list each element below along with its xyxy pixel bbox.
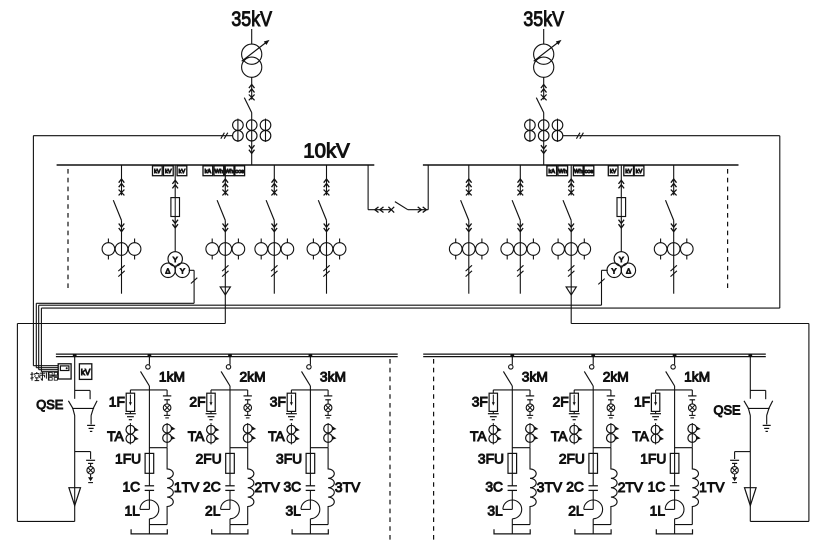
frame electrode branch 2kM	[575, 529, 611, 534]
tick marks below lamp 2kM	[245, 412, 251, 418]
wire branch 2kM parallel junction top	[593, 447, 611, 449]
feeder W1 wire through CTs	[121, 220, 123, 293]
svg-text:1TV: 1TV	[699, 480, 725, 495]
current transformer group TA1 (3 phases x 2 cores)	[233, 119, 271, 142]
feeder W6 wire through CTs	[468, 220, 470, 293]
tick marks below lamp 2kM	[608, 412, 614, 418]
svg-text:3TV: 3TV	[335, 480, 361, 495]
svg-text:3F: 3F	[472, 394, 488, 409]
switch 2kM (circle + blade)	[221, 355, 231, 386]
fuse 2FU	[226, 453, 235, 485]
wire branch 1kM bottom junction	[675, 525, 693, 534]
capacitor 1C	[145, 486, 154, 510]
wire branch 3kM parallel junction top	[310, 447, 328, 449]
indicator lamp branch 3kM	[526, 404, 534, 412]
wire breaker 2 to CT group	[543, 113, 545, 165]
ground arrester 2F	[569, 411, 580, 419]
text label 2C	[566, 480, 584, 495]
wire filter bus section I (double line)	[56, 354, 398, 357]
current transformer TA branch 1kM left	[126, 423, 139, 445]
svg-text:1C: 1C	[122, 480, 140, 495]
reactor 2L	[584, 500, 603, 525]
svg-text:Δ: Δ	[626, 266, 631, 275]
feeder W8 breaker blade	[563, 200, 571, 220]
feeder W1: wire from bus	[121, 165, 123, 195]
wire cable route feeder W3 to filter section I	[17, 324, 225, 522]
wire 10kV bus section II	[423, 164, 739, 166]
current transformer group TA2 (3 phases x 2 cores)	[525, 119, 563, 142]
svg-text:3kM: 3kM	[320, 370, 346, 385]
indicator lamp branch 1kM	[689, 404, 697, 412]
text label 2FU	[196, 452, 222, 467]
text label 1TV	[174, 480, 200, 495]
feeder W1 breaker blade	[113, 200, 121, 220]
junction node branch 2kM on filter bus	[591, 354, 595, 358]
text 35kV label source 2	[523, 7, 564, 31]
wire CT1 cable down left edge to controller	[33, 136, 58, 366]
junction node branch 2kM on filter bus	[228, 354, 232, 358]
QSE section II wire down	[749, 416, 751, 488]
text label 3L	[285, 504, 301, 519]
feeder W5 withdrawable contact (chevrons + star)	[324, 179, 330, 195]
meter boxes kA Wh Wh cos bus I	[203, 166, 245, 176]
current transformer TA branch 1kM right	[688, 423, 701, 448]
text label 3F	[270, 394, 286, 409]
capacitor 3C	[508, 486, 517, 510]
current transformer TA branch 3kM left	[287, 423, 300, 445]
discharge capacitor branch 2kM	[244, 390, 252, 404]
switch 3kM (circle + blade)	[302, 355, 312, 386]
text label 3F	[472, 394, 488, 409]
feeder W10: wire from bus	[673, 165, 675, 195]
feeder W3 lower contact (chevrons)	[223, 224, 229, 232]
QSE section I switch contacts (funnel)	[68, 401, 97, 416]
text 10kV label	[303, 141, 350, 163]
feeder W7 wire through CTs	[519, 220, 521, 293]
svg-text:2F: 2F	[553, 394, 569, 409]
surge arrester 3F	[287, 390, 295, 412]
svg-text:kV: kV	[179, 169, 186, 175]
feeder W8: wire from bus	[570, 165, 572, 195]
feeder W4 current transformers TA (3 phases)	[255, 239, 294, 260]
svg-text:Wh: Wh	[559, 169, 567, 175]
wire PT TV-I secondary cable to controller	[36, 270, 197, 367]
svg-text:2C: 2C	[566, 480, 584, 495]
feeder W8 cable termination (open triangle)	[566, 287, 576, 295]
text label 1F	[109, 394, 125, 409]
feeder W8 lower contact (chevrons)	[568, 224, 574, 232]
text label 2TV	[618, 480, 644, 495]
wire branch 1kM parallel junction top	[149, 447, 167, 449]
discharge capacitor branch 1kM	[688, 390, 696, 404]
feeder W7 lower contact (chevrons)	[518, 224, 524, 232]
svg-text:Wh: Wh	[574, 169, 582, 175]
text label TA left 2kM	[551, 429, 568, 444]
withdrawable contact symbol (double chevron) breaker 2 lower	[541, 145, 547, 153]
current transformer TA branch 2kM left	[570, 423, 583, 445]
switch 2kM (circle + blade)	[584, 355, 594, 386]
capacitor 2C	[589, 486, 598, 510]
voltage transformer coil 2TV	[248, 448, 254, 525]
feeder W4 breaker blade	[266, 200, 274, 220]
text label 3TV	[537, 480, 563, 495]
svg-text:kV: kV	[625, 169, 632, 175]
voltage transformer coil 2TV	[611, 448, 617, 525]
feeder W3 withdrawable contact (chevrons + star)	[222, 179, 228, 195]
text label TA left 1kM	[107, 429, 124, 444]
reactor 1L	[140, 500, 159, 525]
earthing switch QSE section I: wire from bus	[73, 354, 77, 399]
text switch label 3kM	[522, 370, 548, 385]
svg-text:35kV: 35kV	[523, 7, 564, 31]
feeder W5 cable break marks	[323, 265, 329, 276]
wire branch 2kM bottom junction	[593, 525, 611, 534]
fuse 1FU	[670, 453, 679, 485]
PT feeder TV-II withdrawable contact (chevrons)	[619, 180, 625, 188]
svg-text:Y: Y	[619, 255, 624, 264]
PT feeder TV-I withdrawable contact (chevrons)	[172, 180, 178, 188]
reactor 3L	[301, 500, 320, 525]
svg-text:TA: TA	[551, 429, 568, 444]
wire branch 3kM bottom junction	[310, 525, 328, 534]
feeder W6: wire from bus	[468, 165, 470, 195]
svg-text:2FU: 2FU	[559, 452, 585, 467]
indicator lamp	[731, 467, 738, 474]
feeder W5 breaker blade	[318, 200, 326, 220]
wire branch 3kM parallel junction top	[512, 447, 530, 449]
feeder W10 withdrawable contact (chevrons + star)	[671, 179, 677, 195]
fuse 2FU	[589, 453, 598, 485]
earthing switch QSE section II: wire from bus	[748, 354, 752, 399]
svg-text:TA: TA	[470, 429, 487, 444]
feeder W3: wire from bus	[224, 165, 226, 195]
fuse 3FU	[508, 453, 517, 485]
wire branch 2kM parallel junction top	[230, 447, 248, 449]
surge arrester 1F	[126, 390, 134, 412]
svg-text:3C: 3C	[283, 480, 301, 495]
reactor 3L	[503, 500, 522, 525]
switch 1kM (circle + blade)	[666, 355, 676, 386]
wire branch 2kM main	[211, 386, 248, 453]
svg-text:3FU: 3FU	[478, 452, 504, 467]
svg-text:3TV: 3TV	[537, 480, 563, 495]
current transformer TA branch 2kM right	[243, 423, 256, 448]
fuse 1FU	[145, 453, 154, 485]
indicator lamp branch 2kM	[607, 404, 615, 412]
frame electrode branch 3kM	[494, 529, 530, 534]
svg-text:kA: kA	[548, 169, 555, 175]
text switch label 3kM	[320, 370, 346, 385]
withdrawable contact symbol (double chevron + star) breaker 2 upper	[541, 84, 547, 100]
feeder W4: wire from bus	[273, 165, 275, 195]
svg-text:2L: 2L	[568, 504, 584, 519]
svg-text:Y: Y	[180, 266, 185, 275]
feeder W4 lower contact (chevrons)	[272, 224, 278, 232]
svg-text:35kV: 35kV	[231, 7, 272, 31]
feeder W7 current transformers TA (3 phases)	[501, 239, 540, 260]
text switch label 2kM	[240, 370, 266, 385]
PT feeder TV-I wire from bus	[174, 165, 176, 217]
svg-text:2kM: 2kM	[240, 370, 266, 385]
wire filter bus section II (double line)	[423, 354, 766, 357]
feeder W6 breaker blade	[461, 200, 469, 220]
three-winding voltage transformer TV-II (Y Y Δ)	[607, 252, 636, 278]
text label 2L	[568, 504, 584, 519]
svg-text:QSE: QSE	[714, 403, 741, 418]
text label 3TV	[335, 480, 361, 495]
PT feeder TV-I lower contact (chevrons)	[172, 220, 178, 228]
text QSE label section I	[36, 397, 63, 412]
meter boxes kV kV kV bus I	[153, 166, 187, 176]
feeder W7: wire from bus	[519, 165, 521, 195]
feeder W6 lower contact (chevrons)	[466, 224, 472, 232]
tick marks below lamp 3kM	[325, 412, 331, 418]
svg-text:kV: kV	[636, 169, 643, 175]
wire branch 1kM main	[656, 386, 693, 453]
discharge branch tap wire	[735, 452, 751, 459]
text label 1FU	[640, 452, 666, 467]
voltage transformer coil 1TV	[692, 448, 698, 525]
wire 10kV bus section I	[57, 164, 375, 166]
dashed boundary filter section I	[389, 359, 391, 541]
dashed compartment boundary left	[67, 169, 69, 292]
text label 1C	[648, 480, 666, 495]
svg-text:kV: kV	[81, 368, 91, 377]
voltage transformer coil 3TV	[530, 448, 536, 525]
current transformer TA branch 3kM right	[526, 423, 539, 448]
text label 1FU	[115, 452, 141, 467]
text switch label 1kM	[684, 370, 710, 385]
svg-text:1C: 1C	[648, 480, 666, 495]
feeder W7 breaker blade	[512, 200, 520, 220]
text controller label (kong-zhi-qi hand drawn)	[30, 372, 57, 381]
discharge capacitor	[730, 460, 739, 466]
wire CT2 secondary tap to right edge (with cable break marks)	[563, 133, 780, 139]
indicator lamp branch 2kM	[244, 404, 252, 412]
ground arrester 3F	[488, 411, 499, 419]
text label 3FU	[276, 452, 302, 467]
feeder W7 cable break marks	[517, 265, 523, 276]
feeder W6 cable break marks	[466, 265, 472, 276]
svg-text:Δ: Δ	[165, 266, 170, 275]
svg-text:1F: 1F	[634, 394, 650, 409]
PT feeder TV-II wire to transformer	[620, 217, 622, 252]
text label 2TV	[255, 480, 281, 495]
feeder W8 current transformers TA (3 phases)	[552, 239, 591, 260]
svg-text:3L: 3L	[487, 504, 503, 519]
svg-text:cos: cos	[235, 169, 244, 175]
feeder W3 cable break marks	[222, 265, 228, 276]
fuse FU-TV-I	[171, 198, 180, 217]
wire branch 1kM parallel junction top	[675, 447, 693, 449]
current transformer TA branch 2kM right	[607, 423, 620, 448]
svg-text:kV: kV	[165, 169, 172, 175]
switch 3kM (circle + blade)	[503, 355, 513, 386]
surge arrester 2F	[207, 390, 215, 412]
current transformer TA branch 3kM left	[489, 423, 502, 445]
wire transformer T1 secondary	[251, 77, 253, 99]
frame electrode branch 2kM	[212, 529, 248, 534]
discharge capacitor branch 2kM	[607, 390, 615, 404]
ground arrester 2F	[206, 411, 217, 419]
surge arrester 3F	[489, 390, 497, 412]
voltmeter box kV filter section I	[79, 364, 91, 380]
discharge capacitor	[86, 460, 95, 466]
PT feeder TV-II lower contact (chevrons)	[619, 220, 625, 228]
wire bus-tie right drop	[408, 165, 428, 210]
svg-text:kV: kV	[610, 169, 617, 175]
feeder W5: wire from bus	[326, 165, 328, 195]
disconnector blade bus-tie QSM	[395, 202, 408, 210]
svg-text:kV: kV	[154, 169, 161, 175]
current transformer TA branch 3kM right	[324, 423, 337, 448]
feeder W10 wire through CTs	[673, 220, 675, 293]
voltage transformer coil 3TV	[328, 448, 334, 525]
wire CT1 secondary tap to controller (with cable break marks)	[33, 133, 232, 139]
PT feeder TV-II wire from bus	[620, 165, 622, 217]
feeder W3 wire through CTs	[224, 220, 226, 323]
svg-text:Wh: Wh	[225, 169, 233, 175]
text switch label 1kM	[159, 370, 185, 385]
svg-text:1F: 1F	[109, 394, 125, 409]
frame electrode branch 1kM	[131, 529, 167, 534]
text label 1L	[650, 504, 666, 519]
feeder W10 breaker blade	[666, 200, 674, 220]
capacitor 1C	[670, 486, 679, 510]
junction node branch 3kM on filter bus	[309, 354, 313, 358]
text label TA left 2kM	[188, 429, 205, 444]
svg-text:2FU: 2FU	[196, 452, 222, 467]
wire breaker 1 to CT group	[251, 113, 253, 165]
discharge capacitor branch 1kM	[163, 390, 171, 404]
feeder W1 withdrawable contact (chevrons + star)	[119, 179, 125, 195]
surge arrester 1F	[651, 390, 659, 412]
svg-text:TA: TA	[107, 429, 124, 444]
wire branch 3kM main	[493, 386, 530, 453]
tick marks below lamp 3kM	[527, 412, 533, 418]
text label 3C	[283, 480, 301, 495]
text label 2FU	[559, 452, 585, 467]
text label 1L	[124, 504, 140, 519]
junction node branch 3kM on filter bus	[510, 354, 514, 358]
svg-text:1kM: 1kM	[684, 370, 710, 385]
svg-text:3kM: 3kM	[522, 370, 548, 385]
feeder W3 breaker blade	[217, 200, 225, 220]
svg-text:1L: 1L	[124, 504, 140, 519]
current transformer TA branch 1kM left	[651, 423, 664, 445]
svg-text:10kV: 10kV	[303, 141, 350, 163]
feeder W10 lower contact (chevrons)	[671, 224, 677, 232]
indicator lamp branch 1kM	[163, 404, 171, 412]
wire PT TV-II secondary cable across to controller	[39, 270, 608, 369]
svg-text:2L: 2L	[205, 504, 221, 519]
wire transformer T2 secondary	[543, 77, 545, 99]
QSE section II earth leg and ground	[763, 416, 771, 432]
svg-text:Y: Y	[173, 255, 178, 264]
text label 2F	[189, 394, 205, 409]
current transformer TA branch 1kM right	[163, 423, 176, 448]
transformer T1 35/10kV OLTC (two circles with regulation arrow)	[242, 40, 270, 77]
text switch label 2kM	[603, 370, 629, 385]
text label 1C	[122, 480, 140, 495]
feeder W3 current transformers TA (3 phases)	[206, 239, 245, 260]
wire branch 1kM bottom junction	[149, 525, 167, 534]
cable termination (open triangle) filter feed	[69, 488, 81, 522]
feeder W10 current transformers TA (3 phases)	[654, 239, 693, 260]
junction node branch 1kM on filter bus	[148, 354, 152, 358]
wire 35kV drop to transformer T1	[251, 29, 253, 44]
QSE section I wire down	[74, 416, 76, 488]
svg-text:2F: 2F	[189, 394, 205, 409]
svg-text:TA: TA	[268, 429, 285, 444]
feeder W10 cable break marks	[671, 265, 677, 276]
wire branch 3kM main	[291, 386, 328, 453]
reactor 2L	[221, 500, 240, 525]
feeder W8 wire through CTs	[570, 220, 572, 323]
text label 3FU	[478, 452, 504, 467]
withdrawable contact symbol (double chevron + star) breaker 1 upper	[249, 84, 255, 100]
dashed boundary filter section II	[433, 359, 435, 541]
text label 2C	[203, 480, 221, 495]
withdrawable contact bus-tie right (chevrons)	[418, 207, 427, 213]
feeder W5 wire through CTs	[326, 220, 328, 293]
feeder W7 withdrawable contact (chevrons + star)	[517, 179, 523, 195]
feeder W1 lower contact (chevrons)	[119, 224, 125, 232]
switch 1kM (circle + blade)	[141, 355, 151, 386]
svg-text:1TV: 1TV	[174, 480, 200, 495]
svg-text:3L: 3L	[285, 504, 301, 519]
voltage transformer coil 1TV	[167, 448, 173, 525]
tick marks below lamp 1kM	[689, 412, 695, 418]
ground arrester 3F	[286, 411, 297, 419]
feeder W3 cable termination (open triangle)	[220, 287, 230, 295]
svg-text:1kM: 1kM	[159, 370, 185, 385]
discharge branch arrow and tick	[732, 474, 737, 483]
svg-text:TA: TA	[632, 429, 649, 444]
frame electrode branch 3kM	[292, 529, 328, 534]
capacitor 2C	[225, 486, 234, 510]
feeder W8 cable break marks	[568, 265, 574, 276]
svg-text:1FU: 1FU	[640, 452, 666, 467]
text label 1TV	[699, 480, 725, 495]
QSE section II switch contacts (funnel)	[744, 401, 773, 416]
svg-text:Wh: Wh	[215, 169, 223, 175]
meter boxes kV kV kV bus II	[608, 166, 644, 176]
surge arrester 2F	[570, 390, 578, 412]
ground arrester 1F	[125, 411, 136, 419]
svg-text:QSE: QSE	[36, 397, 63, 412]
fuse 3FU	[306, 453, 315, 485]
svg-text:2TV: 2TV	[255, 480, 281, 495]
fuse FU-TV-II	[617, 198, 626, 217]
three-winding voltage transformer TV-I (Y Δ Y)	[161, 252, 190, 278]
discharge capacitor branch 3kM	[526, 390, 534, 404]
current transformer TA branch 2kM left	[207, 423, 220, 445]
wire bus-tie left drop	[368, 165, 391, 210]
dashed compartment boundary right	[727, 169, 729, 292]
cable termination (open triangle) filter feed	[745, 488, 757, 522]
svg-text:3F: 3F	[270, 394, 286, 409]
feeder W5 lower contact (chevrons)	[324, 224, 330, 232]
feeder W8 withdrawable contact (chevrons + star)	[568, 179, 574, 195]
svg-text:2C: 2C	[203, 480, 221, 495]
controller box (signal device)	[58, 364, 71, 379]
svg-text:Y: Y	[612, 266, 617, 275]
indicator lamp	[87, 467, 94, 474]
indicator lamp branch 3kM	[324, 404, 332, 412]
svg-text:1L: 1L	[650, 504, 666, 519]
svg-text:3C: 3C	[485, 480, 503, 495]
